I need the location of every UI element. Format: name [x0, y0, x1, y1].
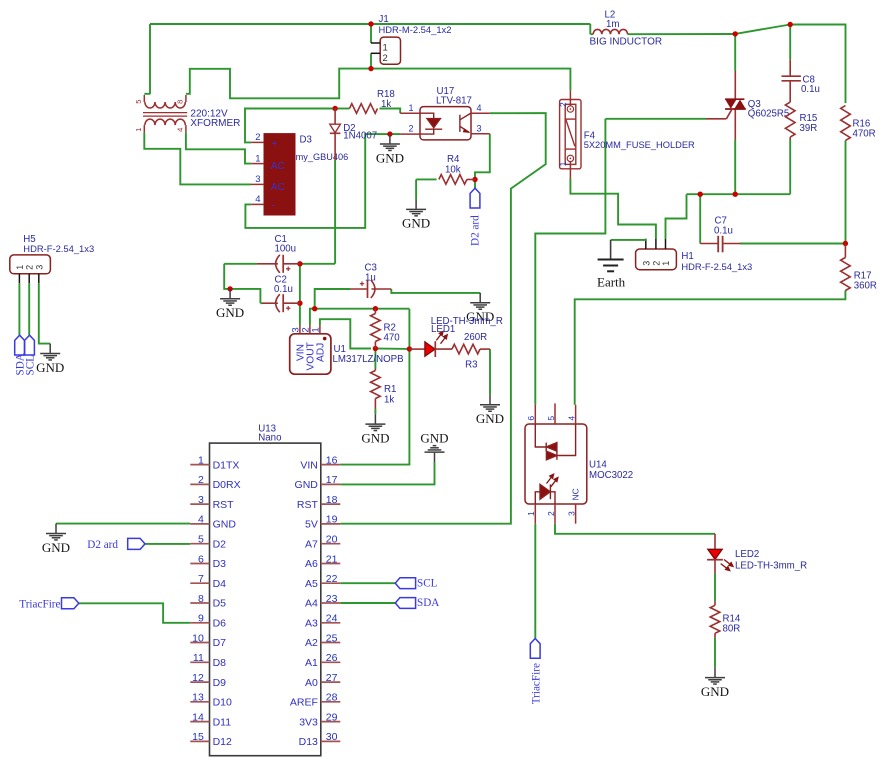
wire J1 to fuse F4 top	[371, 69, 570, 91]
svg-text:19: 19	[326, 514, 338, 526]
junction LED1/VIN node	[407, 346, 412, 351]
svg-text:AC: AC	[271, 161, 285, 172]
svg-text:GND: GND	[361, 430, 389, 445]
pin 1 D1TX	[190, 464, 209, 466]
connector H5 HDR-F-2.54_1x3	[10, 255, 51, 274]
svg-text:360R: 360R	[854, 281, 877, 292]
svg-text:D4: D4	[213, 578, 227, 590]
svg-text:my_GBU406: my_GBU406	[296, 152, 349, 162]
svg-text:R4: R4	[447, 154, 460, 165]
junction C3/VOUT node	[312, 306, 317, 311]
svg-text:D5: D5	[213, 598, 227, 610]
node D2 ard flag (vertical)	[470, 188, 480, 208]
svg-text:BIG INDUCTOR: BIG INDUCTOR	[590, 37, 663, 48]
ground GND at C1/C2	[229, 289, 231, 298]
svg-text:5: 5	[134, 100, 143, 104]
capacitor C1 100u	[257, 263, 278, 265]
wire Q3 gate to U14 pin6	[535, 119, 605, 405]
bridge rectifier D3 my_GBU406	[264, 134, 295, 215]
svg-text:15: 15	[192, 731, 204, 743]
svg-text:D9: D9	[213, 677, 227, 689]
ground GND at R14	[714, 668, 716, 677]
wire down to Q3 top	[734, 34, 736, 71]
junction C8 top node	[788, 22, 793, 27]
svg-text:GND: GND	[402, 216, 430, 231]
resistor R14 80R	[714, 601, 716, 605]
wire LED2 top lead	[714, 534, 716, 549]
svg-text:8: 8	[198, 593, 204, 605]
wire J1 pin2 drop	[370, 53, 372, 68]
svg-text:2: 2	[546, 511, 556, 516]
pin 24 A3	[321, 622, 341, 624]
svg-text:7: 7	[198, 573, 204, 585]
wire D2 cathode down to C1 node	[334, 160, 336, 264]
pin 2 D0RX	[190, 483, 209, 485]
svg-text:4: 4	[477, 103, 482, 113]
svg-text:HDR-F-2.54_1x3: HDR-F-2.54_1x3	[23, 243, 94, 254]
svg-text:MOC3022: MOC3022	[589, 470, 633, 481]
node SDA flag	[395, 598, 415, 609]
wire LED2 to R14	[714, 574, 716, 602]
wire H5 pin3 to GND	[39, 283, 50, 343]
svg-text:260R: 260R	[464, 332, 487, 343]
svg-text:VIN: VIN	[300, 459, 318, 471]
svg-text:R3: R3	[465, 359, 477, 370]
wire R4 left to GND	[415, 179, 417, 199]
svg-text:1: 1	[383, 43, 388, 54]
svg-text:3: 3	[641, 261, 651, 266]
svg-text:5: 5	[198, 534, 204, 546]
svg-text:4: 4	[566, 416, 576, 421]
svg-text:D13: D13	[299, 736, 318, 748]
junction R2/R1/ADJ node	[373, 346, 378, 351]
wire D2ard flag to U13 pin5	[145, 543, 190, 545]
svg-text:HDR-F-2.54_1x3: HDR-F-2.54_1x3	[681, 261, 752, 272]
svg-text:470: 470	[384, 333, 401, 344]
ground Earth	[610, 240, 612, 259]
wire C3 left	[315, 289, 350, 309]
resistor R4 10k	[439, 175, 467, 185]
transformer 220:12V XFORMER	[143, 95, 187, 133]
wire top right to R16	[790, 25, 845, 104]
pin 12 D9	[190, 681, 209, 683]
resistor R3 260R	[452, 344, 480, 354]
wire U1 ADJ to R2 bottom node	[320, 319, 371, 348]
svg-text:1N4007: 1N4007	[343, 131, 377, 142]
svg-text:30: 30	[326, 731, 338, 743]
svg-text:GND: GND	[295, 479, 319, 491]
resistor R1 1k	[374, 369, 376, 371]
svg-text:-: -	[272, 201, 275, 212]
pin 17 GND	[321, 483, 341, 485]
pin 6 U14 top	[534, 405, 536, 424]
svg-text:13: 13	[192, 692, 204, 704]
transistor Q3 Q6025R5 triac	[734, 71, 736, 99]
svg-text:AREF: AREF	[290, 697, 318, 709]
wire D3 pin2 to D2 anode node	[245, 109, 335, 143]
svg-text:SCL: SCL	[417, 577, 438, 589]
wire mains node horizontal	[687, 193, 791, 195]
junction J1 pin1 node	[368, 21, 373, 26]
svg-text:1: 1	[134, 128, 143, 132]
pin 14 D11	[190, 721, 209, 723]
svg-text:1u: 1u	[365, 272, 376, 283]
svg-text:Q6025R5: Q6025R5	[748, 109, 789, 120]
svg-text:GND: GND	[376, 150, 404, 165]
wire TriacFire flag to U13 pin9	[79, 603, 191, 623]
svg-text:12: 12	[192, 672, 204, 684]
connector J1 HDR-M-2.54_1x2	[380, 37, 400, 64]
svg-text:D11: D11	[213, 716, 232, 728]
svg-text:NC: NC	[570, 488, 580, 500]
wire C1 node to D2 cathode line	[300, 263, 335, 265]
wire jog to pin5	[144, 93, 150, 95]
wire J1 pin1 drop	[370, 24, 372, 43]
svg-text:2: 2	[651, 261, 661, 266]
junction C7/R16/R17 node	[843, 241, 848, 246]
diac inside U14	[535, 424, 575, 460]
svg-text:A5: A5	[305, 578, 318, 590]
svg-text:2: 2	[383, 53, 388, 64]
svg-text:3: 3	[198, 494, 204, 506]
svg-text:1: 1	[661, 261, 671, 266]
resistor R2 470	[374, 309, 376, 314]
LED inside U14	[535, 484, 555, 504]
pin 5 U14 top	[554, 403, 556, 424]
svg-text:4: 4	[176, 128, 185, 132]
junction C1 positive node	[297, 261, 302, 266]
wire R4 left	[416, 178, 437, 180]
pin 19 5V	[321, 523, 341, 525]
svg-text:D6: D6	[213, 618, 227, 630]
wire H5 pin2 to SCL flag	[28, 283, 30, 335]
svg-text:3: 3	[477, 123, 482, 133]
junction GND tap on U17 pin2 wire	[387, 131, 392, 136]
svg-text:GND: GND	[420, 430, 448, 445]
svg-text:25: 25	[326, 632, 338, 644]
ground GND at R1	[374, 414, 376, 423]
svg-text:GND: GND	[36, 360, 64, 375]
svg-text:D2: D2	[213, 538, 227, 550]
svg-text:1: 1	[408, 103, 413, 113]
svg-text:1m: 1m	[606, 19, 619, 30]
wire H1 pin3 to Earth	[611, 239, 646, 240]
svg-text:1: 1	[198, 454, 204, 466]
resistor R17 360R	[844, 244, 846, 258]
svg-text:D7: D7	[213, 637, 227, 649]
svg-text:1k: 1k	[381, 99, 391, 110]
wire R17 bottom to U14 pin4	[575, 291, 846, 405]
wire H1 pin1 up to mains node	[666, 194, 687, 239]
svg-text:3V3: 3V3	[299, 716, 318, 728]
svg-text:23: 23	[326, 593, 338, 605]
svg-text:3: 3	[34, 265, 44, 270]
IC U13 Nano	[210, 443, 321, 756]
wire R3 to GND	[489, 349, 491, 395]
pin 3 RST	[190, 503, 209, 505]
svg-text:1: 1	[558, 161, 568, 166]
pin 4 GND	[190, 523, 209, 525]
svg-text:5: 5	[546, 416, 556, 421]
op-amp U17 LTV-817 optocoupler	[420, 107, 471, 140]
wire transformer pin1 to D3 pin3	[144, 133, 251, 185]
svg-text:2: 2	[255, 132, 260, 143]
wire transformer pin4 to D3 pin1	[186, 133, 251, 164]
ground GND at U13 pin17 (inverted)	[434, 453, 436, 462]
ground GND at R3	[489, 395, 491, 404]
pin 5 D2	[190, 543, 209, 545]
pin 6 D3	[190, 563, 209, 565]
svg-text:18: 18	[326, 494, 338, 506]
svg-text:SCL: SCL	[24, 355, 36, 376]
node SCL flag (H5)	[25, 335, 35, 355]
wire R4 node to D2ard flag	[474, 180, 476, 189]
svg-text:ADJ: ADJ	[316, 343, 327, 362]
wire H5 pin1 to SDA flag	[18, 283, 20, 335]
pin 7 D4	[190, 582, 209, 584]
svg-text:A1: A1	[305, 657, 318, 669]
fuse F4 5X20MM_FUSE_HOLDER	[569, 91, 571, 106]
pin 8 D5	[190, 602, 209, 604]
svg-text:1: 1	[255, 153, 260, 164]
junction C2 positive node	[297, 301, 302, 306]
ground GND at bridge negative	[389, 134, 391, 143]
wire U17 pin3 down to R4 node	[475, 134, 490, 180]
wire down to R1	[374, 349, 376, 369]
svg-text:24: 24	[326, 613, 338, 625]
wire J1 to L2	[371, 23, 590, 25]
svg-text:6: 6	[526, 416, 536, 421]
wire U13 pin22 to SCL flag	[340, 582, 395, 584]
wire R14 to GND	[714, 638, 716, 668]
junction R2 top node	[373, 306, 378, 311]
wire down to C8	[789, 25, 791, 60]
LED LED1 LED-TH-3mm_R	[409, 348, 425, 350]
ground GND at C3	[479, 293, 481, 302]
pin 20 A7	[321, 543, 341, 545]
wire C1+/C2+ down to U1 VIN	[299, 264, 301, 325]
LED LED2 LED-TH-3mm_R	[708, 549, 722, 559]
svg-text:470R: 470R	[853, 129, 876, 140]
svg-text:D0RX: D0RX	[213, 479, 241, 491]
pin 11 D8	[190, 661, 209, 663]
svg-text:LED-TH-3mm_R: LED-TH-3mm_R	[735, 561, 807, 572]
wire U14 pin2 to LED2	[555, 524, 715, 534]
svg-text:26: 26	[326, 652, 338, 664]
pin 22 A5	[321, 582, 341, 584]
resistor R18 1k	[350, 104, 378, 114]
svg-text:14: 14	[192, 711, 204, 723]
svg-text:A4: A4	[305, 598, 318, 610]
pin 4 U14 top	[575, 405, 577, 424]
wire U17 pin4 to 5V net to U13 pin19	[340, 113, 545, 524]
wire transformer pin8 staircase to J1 pin2	[186, 69, 371, 99]
svg-text:21: 21	[326, 553, 338, 565]
wire Q3 gate horizontal	[605, 118, 706, 120]
svg-text:D3: D3	[300, 135, 312, 146]
pin 16 VIN	[321, 464, 341, 466]
wire Q3 bottom to mains node	[734, 140, 736, 195]
wire U14 pin1 to TriacFire flag	[534, 524, 536, 639]
svg-text:100u: 100u	[275, 244, 297, 255]
pin 30 D13	[321, 740, 341, 742]
pin 25 A2	[321, 642, 341, 644]
capacitor C8 0.1u	[789, 59, 791, 76]
svg-text:R1: R1	[384, 384, 396, 395]
svg-text:2: 2	[408, 123, 413, 133]
wire C1 to GND dot	[224, 264, 230, 289]
svg-text:2: 2	[198, 474, 204, 486]
wire stub	[479, 292, 481, 295]
svg-text:5V: 5V	[305, 519, 318, 531]
svg-text:TriacFire: TriacFire	[19, 598, 60, 610]
wire L2 left lead	[590, 33, 593, 35]
svg-text:GND: GND	[701, 684, 729, 699]
svg-text:RST: RST	[297, 499, 319, 511]
wire R15 bottom to mains node	[789, 140, 791, 194]
svg-text:11: 11	[193, 652, 204, 664]
pin 3 U14 bottom	[575, 504, 577, 524]
svg-text:HDR-M-2.54_1x2: HDR-M-2.54_1x2	[379, 24, 452, 35]
wire L2 to Q3 node	[628, 33, 736, 35]
wire C3 right to GND	[391, 289, 480, 293]
wire step down to L2	[589, 24, 591, 34]
svg-text:A3: A3	[305, 618, 318, 630]
capacitor C7 0.1u	[700, 243, 718, 245]
svg-text:U14: U14	[589, 459, 607, 470]
svg-text:GND: GND	[216, 305, 244, 320]
junction Q3 bottom tap	[733, 192, 738, 197]
diode D2 1N4007	[334, 109, 336, 125]
svg-text:Earth: Earth	[597, 275, 626, 290]
pin 18 RST	[321, 503, 341, 505]
svg-text:10k: 10k	[445, 165, 461, 176]
pin 13 D10	[190, 701, 209, 703]
svg-text:4: 4	[198, 514, 204, 526]
wire U13 GND pin17 up	[340, 462, 434, 484]
wire R18 to U17 pin1 with jog	[380, 109, 401, 114]
pin 10 D7	[190, 642, 209, 644]
svg-text:2: 2	[558, 102, 568, 107]
svg-text:2: 2	[25, 265, 35, 270]
junction R4/D2ard node	[472, 177, 477, 182]
svg-text:D2 ard: D2 ard	[87, 539, 118, 551]
junction J1 pin2 node	[368, 66, 373, 71]
regulator U1 LM317LZ/NOPB	[290, 334, 331, 374]
capacitor C2 0.1u	[262, 302, 278, 304]
svg-text:9: 9	[198, 613, 204, 625]
svg-text:LM317LZ/NOPB: LM317LZ/NOPB	[333, 354, 404, 365]
svg-text:3: 3	[566, 511, 576, 516]
svg-text:AC: AC	[271, 182, 285, 193]
wire C7 to R16/R17 node	[740, 243, 846, 245]
svg-text:0.1u: 0.1u	[274, 284, 293, 295]
svg-text:17: 17	[326, 474, 338, 486]
inductor L2 1m BIG INDUCTOR	[593, 29, 627, 34]
wire fuse F4 bottom to H1 pin2	[570, 179, 656, 239]
svg-text:XFORMER: XFORMER	[190, 118, 240, 129]
svg-text:20: 20	[326, 534, 338, 546]
svg-text:0.1u: 0.1u	[801, 84, 820, 95]
capacitor C3 1u	[350, 288, 368, 290]
svg-text:27: 27	[326, 672, 338, 684]
wire AC line top left to J1	[150, 23, 371, 25]
pin 23 A4	[321, 602, 341, 604]
svg-text:A6: A6	[305, 558, 318, 570]
optotriac U14 MOC3022	[525, 424, 587, 504]
wire U13 VIN pin16 to regulator output node	[340, 309, 409, 465]
wire U1 VOUT node horizontal	[310, 309, 410, 325]
svg-text:Nano: Nano	[258, 433, 281, 444]
svg-text:6: 6	[198, 553, 204, 565]
svg-text:1: 1	[526, 511, 536, 516]
svg-text:0.1u: 0.1u	[714, 225, 733, 236]
resistor R15 39R	[785, 102, 795, 137]
ground GND at R4	[415, 200, 417, 209]
svg-text:+: +	[272, 139, 278, 150]
svg-text:3: 3	[255, 174, 260, 185]
ground GND at U13 pin4	[55, 524, 57, 533]
pin 21 A6	[321, 563, 341, 565]
svg-text:1: 1	[311, 327, 322, 332]
svg-text:RST: RST	[213, 499, 235, 511]
svg-text:5X20MM_FUSE_HOLDER: 5X20MM_FUSE_HOLDER	[584, 140, 695, 150]
svg-text:LED1: LED1	[431, 324, 455, 335]
node SCL flag	[395, 578, 415, 589]
ground GND at H5	[49, 344, 51, 353]
wire down to transformer pin5	[149, 24, 151, 94]
junction L2/Q3 node	[733, 31, 738, 36]
wire GND node to C2	[230, 289, 260, 303]
svg-text:28: 28	[326, 692, 338, 704]
pin 28 AREF	[321, 701, 341, 703]
wire R16 bottom to C7 node	[845, 141, 847, 244]
svg-text:LED2: LED2	[735, 549, 759, 560]
pin 29 3V3	[321, 721, 341, 723]
wire R1 to GND	[374, 409, 376, 415]
svg-text:D1TX: D1TX	[213, 459, 240, 471]
junction C7 tap	[698, 192, 703, 197]
svg-text:A7: A7	[305, 538, 318, 550]
svg-text:GND: GND	[42, 540, 70, 555]
resistor R16 470R	[841, 106, 851, 141]
wire node to R18	[335, 108, 349, 110]
node TriacFire flag (to U13 pin9)	[62, 598, 79, 609]
junction C1/C2 ground node	[227, 286, 232, 291]
pin 26 A1	[321, 661, 341, 663]
svg-text:29: 29	[326, 711, 338, 723]
pin 2 U14 bottom	[554, 504, 556, 524]
wire C1 left	[224, 263, 257, 265]
svg-text:4: 4	[255, 194, 260, 205]
svg-text:D3: D3	[213, 558, 227, 570]
node SDA flag (H5)	[15, 335, 25, 355]
svg-text:80R: 80R	[723, 624, 741, 635]
node D2 ard flag (to U13 pin5)	[128, 538, 145, 549]
svg-text:22: 22	[326, 573, 338, 585]
svg-text:1k: 1k	[384, 395, 394, 406]
svg-text:GND: GND	[476, 411, 504, 426]
wire C2 stub	[260, 302, 262, 304]
junction D2 anode node	[332, 106, 337, 111]
wire U13 pin4 to GND	[56, 523, 190, 525]
pin 27 A0	[321, 681, 341, 683]
wire D3 pin4 to GND net / U17 pin2	[245, 134, 400, 228]
svg-text:GND: GND	[213, 519, 237, 531]
wire diagonal to top right	[735, 25, 790, 34]
svg-text:8: 8	[176, 100, 185, 104]
svg-text:D10: D10	[213, 697, 232, 709]
